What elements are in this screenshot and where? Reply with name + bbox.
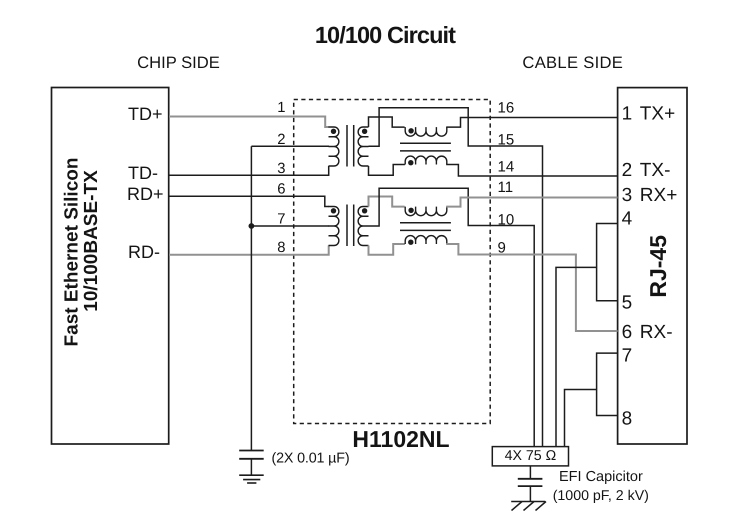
earth ground (chassis)	[511, 502, 546, 511]
svg-text:RX-: RX-	[640, 322, 673, 343]
choke L2 core	[400, 222, 451, 224]
svg-text:RJ-45: RJ-45	[645, 235, 671, 298]
connector J1 RJ-45 box	[618, 88, 687, 444]
svg-text:CHIP SIDE: CHIP SIDE	[137, 53, 220, 72]
svg-text:5: 5	[622, 293, 633, 314]
wire RD+ pin6	[169, 196, 329, 206]
transformer RX core	[346, 205, 348, 247]
svg-text:10/100 Circuit: 10/100 Circuit	[315, 22, 456, 48]
junction center-tap bus / pin7	[249, 223, 255, 229]
svg-text:H1102NL: H1102NL	[352, 426, 449, 452]
wire pin15 route (TX secondary center tap)	[369, 108, 543, 447]
wire TD- pin3	[169, 166, 329, 175]
wire pin9 to RJ45 pin6 (gray)	[446, 244, 617, 331]
capacitor C1 bypass 2X 0.01uF	[239, 451, 264, 459]
chip U1 Fast Ethernet Silicon box	[52, 88, 169, 445]
choke L1 top winding	[405, 127, 447, 136]
wire pin11 to RJ45 pin3 (gray)	[446, 198, 617, 207]
svg-text:TX-: TX-	[640, 160, 671, 181]
transformer module T1 H1102NL dashed outline	[294, 100, 491, 424]
svg-text:CABLE SIDE: CABLE SIDE	[522, 53, 623, 72]
transformer TX primary winding	[329, 127, 339, 166]
phasing dot TX primary	[331, 129, 336, 134]
phasing dot choke L2 top	[408, 208, 413, 213]
svg-text:RD-: RD-	[128, 242, 160, 262]
wire pin2 center tap	[251, 145, 329, 147]
choke L2 bottom winding	[405, 236, 447, 244]
transformer TX core	[346, 125, 348, 167]
svg-text:EFI Capicitor: EFI Capicitor	[559, 469, 643, 485]
svg-text:TX+: TX+	[640, 104, 675, 125]
wire pin14 to RJ45 pin2	[446, 165, 617, 177]
wire C1 to signal ground	[250, 459, 252, 475]
phasing dot TX secondary	[362, 129, 367, 134]
wire RJ45 pin7/pin8 bracket	[597, 353, 618, 415]
wire RD- (gray, chip to T1 lower primary bottom)	[169, 246, 329, 255]
wire TX secondary top to choke L1	[369, 117, 405, 127]
svg-text:6: 6	[277, 182, 285, 198]
svg-text:10/100BASE-TX: 10/100BASE-TX	[81, 170, 102, 312]
svg-text:3: 3	[622, 185, 633, 206]
wire RX secondary bottom to choke L2 (gray)	[369, 244, 405, 255]
svg-text:7: 7	[622, 346, 633, 367]
transformer RX primary winding	[329, 207, 339, 246]
svg-text:RX+: RX+	[640, 185, 678, 206]
svg-text:1: 1	[622, 104, 633, 125]
wire center-tap bus to bypass capacitor	[250, 146, 252, 450]
svg-text:4X 75 Ω: 4X 75 Ω	[505, 448, 557, 464]
choke L1 core	[400, 142, 451, 144]
svg-text:TD+: TD+	[128, 104, 163, 124]
wire pin10 route (RX secondary center tap)	[369, 188, 535, 446]
wire R1 to EFI capacitor	[529, 466, 531, 479]
svg-text:4: 4	[622, 209, 633, 230]
svg-text:TD-: TD-	[128, 163, 158, 183]
svg-text:1: 1	[277, 100, 285, 116]
phasing dot choke L1 bottom	[408, 160, 413, 165]
svg-text:6: 6	[622, 322, 633, 343]
choke L2 top winding	[405, 207, 447, 216]
phasing dot choke L2 bottom	[408, 240, 413, 245]
wire tap pin4/5 to resistor network	[556, 267, 597, 446]
transformer TX secondary winding	[358, 127, 368, 166]
svg-text:(1000 pF, 2 kV): (1000 pF, 2 kV)	[553, 488, 649, 504]
phasing dot choke L1 top	[408, 128, 413, 133]
wire RX secondary top to choke L2 (gray)	[369, 197, 405, 207]
phasing dot RX primary	[331, 208, 336, 213]
svg-text:16: 16	[498, 100, 515, 117]
signal ground	[239, 475, 264, 483]
wire RJ45 pin4/pin5 bracket	[597, 224, 618, 301]
svg-text:(2X 0.01 µF): (2X 0.01 µF)	[272, 450, 350, 466]
svg-text:8: 8	[622, 409, 633, 430]
phasing dot RX secondary	[362, 208, 367, 213]
wire pin16 to RJ45 pin1	[446, 118, 617, 128]
svg-text:7: 7	[277, 211, 285, 227]
wire C2 to earth ground	[529, 486, 531, 501]
svg-text:RD+: RD+	[127, 184, 164, 204]
wire pin7 center tap	[251, 225, 329, 227]
transformer RX secondary winding	[358, 207, 368, 246]
svg-text:11: 11	[498, 179, 514, 196]
capacitor C2 EFI 1000pF	[518, 479, 543, 486]
wire tap pin7/8 to resistor network	[565, 390, 597, 447]
svg-text:2: 2	[622, 160, 633, 181]
svg-text:Fast Ethernet Silicon: Fast Ethernet Silicon	[61, 158, 82, 347]
choke L1 bottom winding	[405, 156, 447, 164]
wire TD+ (gray, chip to T1 primary top)	[169, 117, 329, 128]
svg-text:14: 14	[498, 158, 515, 175]
wire TX secondary bottom to choke L1	[369, 165, 405, 176]
resistor network R1 4X 75 ohm box	[492, 447, 568, 466]
